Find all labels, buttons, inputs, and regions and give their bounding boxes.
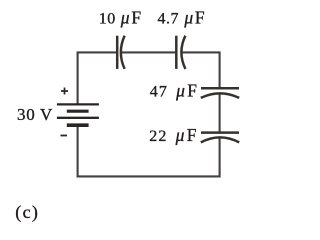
capacitor C1 10uF straight plate [116, 36, 119, 69]
capacitor C1 10uF curved plate [121, 36, 125, 69]
wire top-right + right vertical down to 47uF plate [182, 52, 220, 88]
wire top-middle between C1 and C2 [121, 51, 176, 53]
capacitor C2 4.7uF straight plate [175, 36, 178, 69]
capacitor C4 22uF straight plate [201, 131, 239, 134]
svg-text:30 V: 30 V [17, 105, 53, 124]
plus sign [61, 88, 68, 95]
battery B1 long plate 1 [57, 103, 99, 105]
wire right-middle between 47uF and 22uF [219, 94, 221, 133]
capacitor C3 47uF straight plate [201, 87, 239, 90]
svg-text:47 μF: 47 μF [150, 81, 198, 101]
svg-text:22 μF: 22 μF [149, 125, 197, 145]
battery B1 long plate 2 [57, 117, 99, 119]
svg-text:10 μF: 10 μF [99, 7, 142, 27]
capacitor C3 47uF curved plate [201, 93, 239, 98]
wire bottom: right vertical lower + bottom + left vertical lower [78, 125, 220, 176]
battery B1 short thick plate 2 [67, 123, 89, 127]
capacitor C4 22uF curved plate [201, 137, 239, 142]
svg-text:4.7 μF: 4.7 μF [158, 7, 206, 27]
svg-text:(c): (c) [15, 202, 39, 223]
capacitor C2 4.7uF curved plate [181, 36, 185, 69]
wire top-left: left vertical upper + top-left horizontal [78, 52, 117, 104]
battery B1 short thick plate 1 [67, 110, 89, 113]
minus sign [61, 135, 68, 137]
